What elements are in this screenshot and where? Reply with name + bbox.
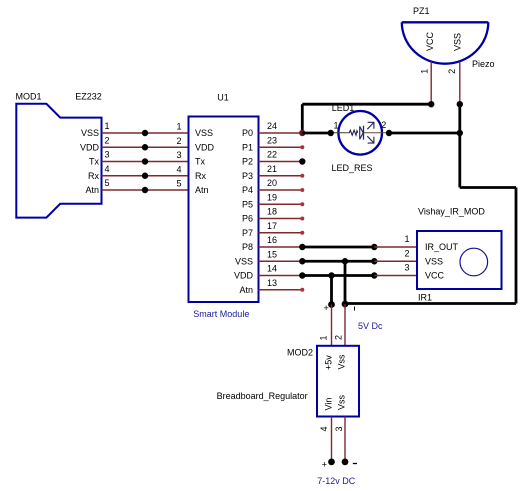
MOD1 pin numbers: [105, 121, 110, 188]
wire VDD black segment: [302, 274, 374, 277]
junction 5V minus node: [342, 301, 349, 308]
svg-text:16: 16: [267, 235, 277, 245]
wire Atn pin13: [259, 289, 303, 291]
svg-text:P1: P1: [242, 142, 253, 152]
svg-text:VDD: VDD: [195, 142, 215, 152]
svg-text:P8: P8: [242, 242, 253, 252]
svg-text:+5v: +5v: [324, 355, 334, 370]
wire right loop horizontal: [460, 186, 516, 189]
svg-text:5: 5: [105, 178, 110, 188]
LED LED1: [332, 103, 388, 155]
IC U1 Smart Module: [189, 93, 259, 303]
svg-text:MOD1: MOD1: [16, 92, 42, 102]
svg-text:Vss: Vss: [337, 354, 347, 370]
wire top horizontal (P0 to PZ1 pin1): [302, 103, 431, 106]
svg-text:VDD: VDD: [234, 271, 254, 281]
junction row2: [142, 144, 148, 150]
svg-text:1: 1: [404, 234, 409, 244]
wire P2 pin22: [259, 161, 303, 163]
wire vertical from PZ1 pin2 down: [458, 104, 461, 187]
svg-text:Tx: Tx: [195, 157, 205, 167]
junction row3: [142, 158, 148, 164]
wire VDD row2: [102, 146, 189, 148]
svg-text:P7: P7: [242, 228, 253, 238]
svg-text:23: 23: [267, 135, 277, 145]
junction at PZ1 pin1: [428, 101, 434, 107]
svg-text:IR_OUT: IR_OUT: [425, 242, 459, 252]
svg-text:P3: P3: [242, 171, 253, 181]
svg-text:P6: P6: [242, 214, 253, 224]
U1 right pin numbers: [267, 121, 277, 288]
svg-text:2: 2: [381, 120, 386, 130]
svg-text:Atn: Atn: [239, 285, 253, 295]
junction row5: [142, 187, 148, 193]
svg-text:Tx: Tx: [89, 157, 99, 167]
wire VSS black segment: [302, 260, 374, 263]
wire VDD pin14: [259, 275, 303, 277]
svg-text:P5: P5: [242, 199, 253, 209]
svg-text:VCC: VCC: [425, 31, 435, 51]
svg-text:VSS: VSS: [453, 33, 463, 51]
junction VSS drop top: [342, 258, 348, 264]
svg-text:15: 15: [267, 249, 277, 259]
junction LED row right T: [457, 130, 463, 136]
svg-text:VSS: VSS: [195, 128, 213, 138]
U1 pin numbers left side: [176, 122, 181, 189]
junction VDD drop top: [328, 272, 334, 278]
wire VSS row1: [102, 132, 189, 134]
svg-text:2: 2: [105, 135, 110, 145]
svg-text:VCC: VCC: [425, 271, 445, 281]
svg-text:+: +: [322, 459, 327, 469]
wire VSS pin15: [259, 260, 303, 262]
regulator MOD2: [287, 346, 359, 417]
wire P6 pin18: [259, 218, 303, 220]
wire vertical P0 junction up: [301, 104, 304, 133]
svg-text:LED_RES: LED_RES: [332, 163, 373, 173]
svg-text:4: 4: [105, 164, 110, 174]
svg-text:Smart Module: Smart Module: [193, 309, 249, 319]
wire Tx row3: [102, 161, 189, 163]
svg-text:4: 4: [176, 164, 181, 174]
svg-text:Vss: Vss: [337, 394, 347, 410]
junction row1: [142, 130, 148, 136]
svg-text:3: 3: [404, 263, 409, 273]
svg-text:Rx: Rx: [88, 171, 99, 181]
junction 5V plus node: [328, 301, 335, 308]
wire bottom 5V return horizontal: [345, 302, 516, 305]
wire P8 black segment: [302, 246, 374, 249]
svg-text:Atn: Atn: [85, 185, 99, 195]
svg-text:2: 2: [404, 248, 409, 258]
svg-text:2: 2: [447, 69, 457, 74]
wire MOD2 pin3 bottom: [344, 417, 346, 462]
terminal plus input: [328, 459, 335, 466]
wire P1 pin23: [259, 146, 303, 148]
wire P5 pin19: [259, 203, 303, 205]
svg-text:1: 1: [319, 335, 329, 340]
wire LED right black: [389, 132, 460, 135]
svg-text:PZ1: PZ1: [413, 6, 430, 16]
svg-text:VDD: VDD: [80, 142, 100, 152]
wire IR pin1 red stub: [374, 246, 417, 248]
svg-text:19: 19: [267, 192, 277, 202]
wire Atn row5: [102, 189, 189, 191]
wire VSS drop vertical: [344, 261, 347, 303]
wire P8 pin16: [259, 246, 303, 248]
svg-text:1: 1: [334, 121, 339, 131]
svg-text:5V Dc: 5V Dc: [358, 321, 383, 331]
svg-text:2: 2: [334, 335, 344, 340]
svg-text:MOD2: MOD2: [287, 348, 313, 358]
wire P7 pin17: [259, 232, 303, 234]
svg-text:21: 21: [267, 164, 277, 174]
svg-text:3: 3: [176, 150, 181, 160]
wire LED left black: [302, 132, 330, 135]
wire VDD drop vertical: [330, 276, 333, 305]
wire MOD2 pin1 top: [331, 305, 333, 346]
svg-text:13: 13: [267, 278, 277, 288]
svg-text:1: 1: [420, 69, 430, 74]
svg-text:LED1: LED1: [332, 103, 355, 113]
IR module Vishay_IR_MOD: [417, 207, 502, 290]
svg-text:Vishay_IR_MOD: Vishay_IR_MOD: [418, 207, 485, 217]
svg-text:Atn: Atn: [195, 185, 209, 195]
svg-text:18: 18: [267, 207, 277, 217]
wire P3 pin21: [259, 175, 303, 177]
svg-text:U1: U1: [217, 93, 229, 103]
svg-text:20: 20: [267, 178, 277, 188]
svg-text:Breadboard_Regulator: Breadboard_Regulator: [217, 391, 308, 401]
wire IR pin3 red stub: [374, 275, 417, 277]
wire PZ1 pin2 vertical: [459, 62, 461, 105]
svg-text:22: 22: [267, 150, 277, 160]
svg-text:P0: P0: [242, 128, 253, 138]
wire MOD2 pin4 bottom: [331, 417, 333, 462]
IR pin numbers: [404, 234, 409, 273]
junction LED pin1: [328, 130, 334, 136]
connector MOD1: [16, 92, 102, 218]
svg-text:+: +: [324, 303, 329, 313]
svg-text:1: 1: [105, 121, 110, 131]
svg-text:VSS: VSS: [81, 128, 99, 138]
svg-text:3: 3: [105, 150, 110, 160]
junction at PZ1 pin2: [457, 101, 463, 107]
svg-text:2: 2: [176, 136, 181, 146]
wire Rx row4: [102, 175, 189, 177]
label minus input: [353, 463, 357, 465]
piezo PZ1: [402, 6, 489, 64]
wire P4 pin20: [259, 189, 303, 191]
svg-text:P2: P2: [242, 157, 253, 167]
label minus 5V tick: [354, 307, 356, 311]
svg-text:IR1: IR1: [418, 293, 432, 303]
svg-text:Piezo: Piezo: [472, 59, 495, 69]
svg-text:EZ232: EZ232: [75, 92, 102, 102]
junction row4: [142, 173, 148, 179]
svg-text:1: 1: [176, 122, 181, 132]
wire MOD2 pin2 top: [344, 304, 346, 346]
junction LED pin2: [386, 130, 392, 136]
wire PZ1 pin1 vertical: [430, 62, 432, 105]
terminal minus input: [342, 459, 349, 466]
wire right loop vertical: [515, 188, 518, 304]
svg-text:VSS: VSS: [235, 256, 253, 266]
wire P0 pin24: [259, 132, 303, 134]
svg-text:7-12v DC: 7-12v DC: [317, 476, 356, 486]
junction P0 node: [299, 130, 305, 136]
svg-text:17: 17: [267, 221, 277, 231]
svg-text:VSS: VSS: [425, 256, 443, 266]
svg-text:Rx: Rx: [195, 171, 206, 181]
svg-text:24: 24: [267, 121, 277, 131]
svg-text:4: 4: [319, 426, 329, 431]
svg-text:P4: P4: [242, 185, 253, 195]
svg-text:Vin: Vin: [324, 398, 334, 411]
wire IR pin2 red stub: [374, 260, 417, 262]
svg-text:5: 5: [176, 179, 181, 189]
svg-text:3: 3: [334, 426, 344, 431]
svg-text:14: 14: [267, 264, 277, 274]
